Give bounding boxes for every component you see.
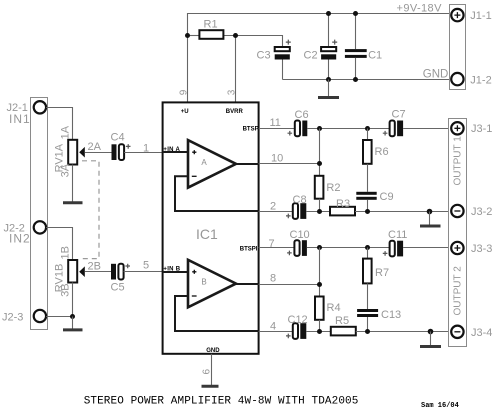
resistor R4 [315, 297, 324, 320]
svg-text:C10: C10 [290, 229, 310, 241]
wire RV1B bottom to J2-3 node [72, 283, 74, 317]
wire R6 to C9 [367, 164, 369, 192]
svg-text:R1: R1 [204, 19, 218, 31]
svg-text:5: 5 [143, 260, 149, 272]
wire IC GND pin stub [211, 354, 213, 385]
wire R3 to J3-2 [355, 211, 451, 213]
capacitor C8 [286, 203, 306, 219]
capacitor C13 [357, 309, 378, 317]
wire J2-3 to node [46, 316, 72, 318]
svg-text:J3-1: J3-1 [471, 123, 492, 135]
svg-text:1A: 1A [60, 125, 72, 139]
junction C13 bottom node [365, 329, 370, 334]
svg-text:IC1: IC1 [196, 226, 218, 242]
wire vertical node to R4 [319, 248, 321, 297]
svg-text:BVRR: BVRR [226, 109, 244, 115]
potentiometer RV1A [68, 140, 85, 165]
wire pin 8 to node [259, 284, 320, 286]
svg-text:Sam 16/04: Sam 16/04 [421, 402, 459, 410]
wire op-amp A output stub [236, 163, 259, 165]
junction C10/R4 node [317, 245, 322, 250]
svg-text:11: 11 [270, 117, 281, 129]
ground below IC [202, 385, 219, 388]
junction C6/R2 node [317, 126, 322, 131]
connector J2 strip [31, 98, 48, 330]
svg-text:6: 6 [202, 369, 213, 375]
resistor R2 [315, 176, 324, 199]
capacitor C9 [356, 192, 376, 200]
svg-text:J1-2: J1-2 [470, 75, 491, 87]
ground below RV1A [63, 201, 83, 204]
wire op-amp B feedback to pin 4 [175, 296, 259, 331]
svg-text:1B: 1B [60, 246, 72, 259]
svg-text:7: 7 [269, 238, 275, 250]
wire op-amp A feedback to pin 2 [175, 176, 259, 211]
wire RV1B wiper to C5 [85, 271, 112, 273]
svg-text:8: 8 [270, 273, 276, 285]
junction ground node J3-4 [428, 329, 434, 335]
connector J3 strip [449, 119, 467, 347]
svg-text:C3: C3 [257, 50, 271, 62]
svg-text:IN2: IN2 [9, 232, 31, 246]
junction R2/C8 node [317, 209, 322, 214]
wire vertical node to R2 [319, 129, 321, 176]
capacitor C5 [111, 264, 130, 280]
svg-text:C2: C2 [304, 50, 318, 62]
svg-text:J1-1: J1-1 [470, 10, 491, 22]
wire C1 top lead [355, 14, 357, 50]
svg-text:B: B [201, 278, 206, 287]
svg-text:C5: C5 [111, 282, 125, 294]
svg-text:R5: R5 [335, 315, 349, 327]
wire C3 bottom lead [282, 60, 284, 80]
junction R4/C12 node [317, 329, 322, 334]
svg-text:IN1: IN1 [9, 112, 31, 126]
svg-text:3A: 3A [60, 163, 72, 177]
wire pin 10 to node [259, 163, 320, 165]
capacitor C1 [345, 49, 367, 58]
wire C7 to J3-1 [403, 128, 451, 130]
wire R1 left lead [188, 35, 200, 37]
wire C10 to C11 [307, 247, 390, 249]
svg-text:J3-3: J3-3 [471, 243, 492, 255]
svg-text:9: 9 [178, 89, 189, 95]
connector pin J2-3 [34, 310, 46, 322]
potentiometer RV1B [68, 260, 85, 283]
svg-text:C4: C4 [111, 132, 125, 144]
connector pin J3-1 [451, 122, 463, 134]
svg-text:R6: R6 [375, 146, 389, 158]
svg-text:A: A [201, 158, 207, 167]
wire C1 bottom lead [355, 58, 357, 80]
wire top supply rail from R1 node to J1-1 [188, 14, 452, 36]
wire pin 11 to C6 [259, 128, 295, 130]
connector J1 strip [450, 5, 466, 90]
svg-text:R4: R4 [327, 302, 341, 314]
connector pin J2-2 [34, 221, 46, 233]
wire pin 4 to C12 [259, 331, 293, 333]
wire pin 2 to C8 [259, 211, 293, 213]
svg-text:10: 10 [271, 153, 283, 165]
connector pin J3-2 [451, 205, 463, 217]
ground at J3-4 [420, 332, 441, 347]
junction at R1 right / BVRR [233, 33, 238, 38]
resistor R7 [363, 259, 372, 284]
svg-text:OUTPUT 1: OUTPUT 1 [453, 136, 464, 186]
svg-text:C6: C6 [295, 109, 309, 121]
svg-text:GND: GND [423, 69, 449, 81]
capacitor C12 [286, 323, 306, 339]
wire C11 to J3-3 [403, 247, 451, 249]
wire RV1A wiper to C4 [85, 152, 112, 154]
connector pin J2-1 [34, 101, 46, 113]
junction C2 bottom rail [326, 77, 331, 82]
wire R4 bottom to pin4 line [319, 320, 321, 332]
wire RV1A bottom to ground [72, 165, 74, 202]
svg-text:C8: C8 [293, 194, 307, 206]
junction C2 top rail [326, 11, 331, 16]
wire +IN B stub [163, 271, 188, 273]
svg-text:GND: GND [206, 348, 220, 354]
op-amp B triangle [188, 260, 236, 308]
junction pin10 node [317, 161, 322, 166]
junction J2-3 / RV1B [70, 314, 75, 319]
wire C6 to C7 [307, 128, 389, 130]
svg-text:C12: C12 [288, 314, 308, 326]
wire C9 bottom to pin2 line [367, 200, 369, 212]
ground below J2-3 node [63, 317, 83, 330]
svg-text:3: 3 [226, 89, 237, 95]
junction C1 bottom rail [353, 77, 358, 82]
svg-text:C13: C13 [381, 309, 401, 321]
svg-text:+9V-18V: +9V-18V [397, 3, 443, 15]
svg-text:J3-2: J3-2 [471, 206, 492, 218]
svg-text:R3: R3 [336, 198, 350, 210]
wire bottom GND rail to J1-2 [283, 79, 452, 81]
capacitor C6 [288, 121, 308, 137]
svg-text:BTSP: BTSP [243, 127, 259, 133]
svg-text:2B: 2B [88, 261, 101, 273]
capacitor C11 [383, 241, 403, 257]
ground below C2 [318, 80, 339, 98]
svg-text:C9: C9 [380, 191, 394, 203]
svg-text:C1: C1 [368, 50, 382, 62]
svg-text:STEREO POWER AMPLIFIER 4W-8W W: STEREO POWER AMPLIFIER 4W-8W WITH TDA200… [84, 396, 359, 408]
op-amp IC1 body [163, 102, 259, 353]
junction C1 top rail [353, 11, 358, 16]
svg-text:4: 4 [270, 321, 276, 333]
junction pin8 node [317, 282, 322, 287]
svg-text:R7: R7 [375, 267, 389, 279]
wire C2 bottom lead [328, 60, 330, 80]
svg-text:1: 1 [143, 143, 149, 155]
wire R7 top lead [367, 248, 369, 259]
connector pin J1-1 [451, 9, 463, 21]
svg-text:R2: R2 [326, 182, 340, 194]
wire +IN A stub [163, 151, 188, 153]
capacitor C2 [321, 40, 337, 60]
svg-text:J2-3: J2-3 [2, 312, 23, 324]
junction at R1 left / +U [185, 33, 190, 38]
svg-text:C11: C11 [388, 229, 407, 241]
capacitor C7 [383, 121, 403, 137]
connector pin J1-2 [451, 73, 463, 85]
wire R1 right lead to C3 bend [223, 36, 282, 48]
wire pin 7 to C10 [259, 247, 295, 249]
connector pin J3-3 [451, 242, 463, 254]
resistor R3 [330, 207, 355, 216]
junction C9 bottom node [365, 209, 370, 214]
wire J2-1 to RV1A top [46, 108, 72, 140]
resistor R1 [199, 30, 223, 39]
wire +U pin net (node to IC pin 9) [187, 36, 189, 103]
junction R6 top node [365, 126, 370, 131]
svg-text:+U: +U [181, 109, 189, 115]
svg-text:3B: 3B [60, 283, 72, 296]
wire R5 to J3-4 [356, 331, 451, 333]
svg-text:J3-4: J3-4 [471, 327, 492, 339]
wire C12 to R5 [306, 331, 331, 333]
resistor R6 [363, 140, 372, 164]
wire C8 to R3 [306, 211, 330, 213]
wire J2-2 to RV1B top [46, 228, 72, 261]
connector pin J3-4 [451, 326, 463, 338]
wire BVRR pin net (node to IC pin 3) [235, 36, 237, 103]
wire C2 top lead [328, 14, 330, 48]
resistor R5 [331, 327, 356, 336]
capacitor C3 [275, 40, 291, 60]
op-amp A triangle [188, 140, 236, 188]
capacitor C4 [112, 144, 131, 160]
svg-text:BTSPI: BTSPI [240, 247, 258, 253]
ground at J3-2 [420, 212, 441, 227]
wire R7 to C13 [367, 283, 369, 309]
svg-text:2A: 2A [88, 141, 102, 153]
wire C4 to IC pin 1 [124, 152, 163, 154]
wire op-amp B output stub [236, 283, 259, 285]
dashed gang link RV1A-RV1B [82, 161, 99, 259]
wire C5 to IC pin 5 [124, 271, 163, 273]
wire C13 bottom to pin4 line [367, 317, 369, 332]
junction R7 top node [365, 245, 370, 250]
capacitor C10 [287, 240, 307, 256]
svg-text:C7: C7 [392, 109, 406, 121]
wire R2 bottom to pin2 line [319, 199, 321, 212]
svg-text:OUTPUT 2: OUTPUT 2 [453, 266, 464, 316]
wire R6 top lead [367, 129, 369, 141]
svg-text:2: 2 [270, 201, 276, 213]
junction ground node J3-2 [427, 209, 433, 215]
